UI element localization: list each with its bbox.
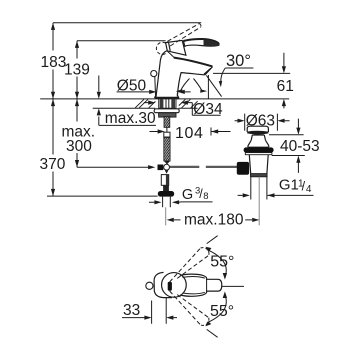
pull rod lower guide bbox=[161, 175, 169, 191]
dimension Ø63 bbox=[235, 112, 290, 130]
svg-text:33: 33 bbox=[123, 302, 140, 319]
tailpipe centerline bbox=[258, 177, 260, 226]
dimension 40-53 bbox=[269, 119, 320, 173]
hose coupling nut bbox=[164, 132, 170, 137]
dimension 104 bbox=[150, 125, 231, 142]
braided flex hose bbox=[164, 137, 170, 161]
dimension max.30 (counter thickness) bbox=[97, 76, 156, 128]
upper swing extension line bbox=[207, 236, 218, 244]
svg-text:61: 61 bbox=[277, 78, 294, 95]
reference line (handle closed level) bbox=[77, 40, 166, 42]
lever arm top view bbox=[180, 274, 222, 296]
svg-text:30°: 30° bbox=[226, 52, 251, 70]
body shoulder bbox=[168, 51, 175, 57]
spout top edge bbox=[174, 58, 213, 67]
shank through counter bbox=[159, 99, 176, 108]
countertop top line bbox=[40, 98, 289, 100]
svg-text:104: 104 bbox=[175, 125, 204, 142]
mounting nut bbox=[159, 113, 176, 117]
svg-text:max.180: max.180 bbox=[184, 212, 244, 229]
dimension max.300 bbox=[62, 99, 156, 169]
pop-up pull rod knob bbox=[151, 71, 157, 77]
lever slot mark bbox=[168, 282, 172, 291]
spout tip aerator face bbox=[204, 67, 213, 75]
dimension 33 bbox=[122, 298, 177, 324]
dimension max.180 bbox=[167, 212, 260, 229]
top reference line (handle raised level) bbox=[53, 22, 201, 24]
hose end fitting disc bbox=[158, 191, 174, 197]
rod clevis / drain ball joint bbox=[237, 162, 249, 175]
handle lever raised (dashed) bbox=[167, 24, 201, 47]
threaded stud bbox=[164, 116, 170, 127]
hose taper tip bbox=[164, 161, 170, 164]
hose axis extension bbox=[165, 207, 167, 225]
mounting washer bbox=[154, 109, 179, 113]
dimension Ø34 (mounting hole) bbox=[144, 101, 223, 119]
G3/8 nipple bbox=[163, 197, 171, 208]
plug neck bbox=[251, 135, 265, 140]
handle top view pivot housing bbox=[154, 272, 172, 297]
pop-up plug cap bbox=[247, 126, 268, 132]
dashed handle position upper bbox=[170, 248, 209, 282]
rubber gasket bbox=[244, 147, 274, 152]
waste body bbox=[249, 155, 268, 174]
body bottom band bbox=[251, 174, 268, 177]
svg-text:4: 4 bbox=[306, 184, 312, 195]
faucet body left edge bbox=[156, 51, 167, 97]
lower 55 arc bbox=[207, 295, 226, 323]
svg-text:Ø63: Ø63 bbox=[246, 112, 275, 129]
svg-text:183: 183 bbox=[41, 54, 67, 71]
svg-text:370: 370 bbox=[40, 156, 66, 173]
label G3/8 bbox=[149, 185, 213, 204]
tailpipe bbox=[251, 177, 267, 200]
handle axis extension bbox=[222, 285, 244, 287]
faucet base at deck bbox=[155, 97, 180, 99]
dashed handle position lower bbox=[170, 291, 209, 325]
pull rod bbox=[154, 77, 157, 97]
dimension 183 bbox=[41, 23, 67, 99]
svg-text:Ø34: Ø34 bbox=[193, 101, 223, 118]
handle pivot dashed arc bbox=[156, 42, 166, 54]
side small circle bbox=[146, 282, 153, 289]
svg-text:300: 300 bbox=[66, 138, 92, 155]
horizontal pop-up rod bbox=[170, 166, 238, 168]
lower swing extension line bbox=[207, 329, 218, 337]
connecting rod thin bbox=[166, 128, 168, 133]
svg-text:40-53: 40-53 bbox=[280, 138, 320, 155]
svg-text:G1: G1 bbox=[279, 177, 299, 194]
countertop bottom line bbox=[93, 107, 198, 109]
label G1 1/4 bbox=[238, 177, 314, 198]
svg-text:8: 8 bbox=[203, 191, 208, 202]
pop-up rod cross joint bbox=[158, 164, 170, 173]
30 degree spray angle bbox=[176, 52, 254, 99]
pivot cap circle bbox=[162, 273, 187, 298]
svg-text:G: G bbox=[182, 187, 193, 203]
counter hatching bbox=[135, 99, 197, 108]
svg-text:139: 139 bbox=[64, 61, 90, 78]
bottom reference line (hose end) bbox=[47, 195, 158, 197]
dimension Ø50 (base diameter) bbox=[117, 77, 191, 94]
faucet body right edge and spout underside bbox=[177, 73, 205, 97]
handle lever closed bbox=[184, 39, 219, 46]
dimension 139 bbox=[64, 41, 90, 99]
dimension 61 (spout height) bbox=[213, 53, 294, 109]
svg-text:55°: 55° bbox=[210, 303, 234, 320]
upper 55 arc bbox=[207, 250, 226, 278]
waste body bell bbox=[248, 140, 269, 147]
svg-text:max.30: max.30 bbox=[105, 110, 156, 127]
svg-text:55°: 55° bbox=[210, 253, 234, 270]
cartridge block bbox=[166, 40, 186, 55]
dimension 370 bbox=[40, 99, 66, 196]
flange plate bbox=[245, 153, 272, 155]
